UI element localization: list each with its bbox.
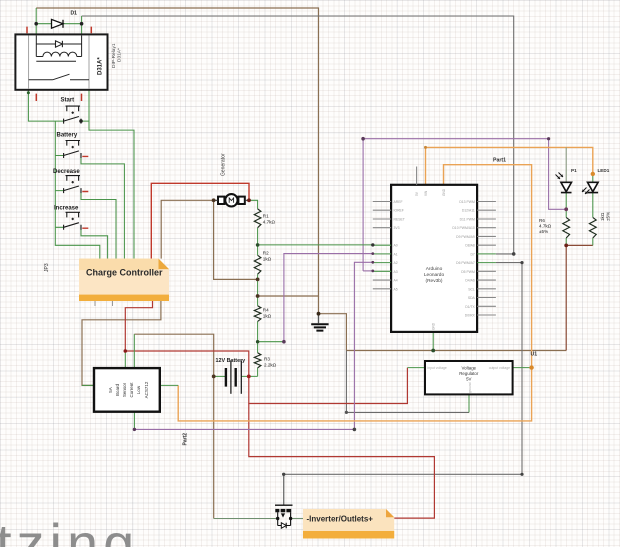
svg-text:D6 PWM/A7: D6 PWM/A7 xyxy=(456,261,475,265)
svg-text:JP3: JP3 xyxy=(44,263,50,272)
svg-text:R6: R6 xyxy=(539,218,545,223)
svg-text:Battery: Battery xyxy=(57,133,78,139)
svg-text:D11 PWM: D11 PWM xyxy=(460,218,475,222)
svg-text:AREF: AREF xyxy=(394,200,403,204)
svg-text:IOREF: IOREF xyxy=(394,209,404,213)
svg-text:ground: ground xyxy=(468,382,472,393)
svg-text:A3: A3 xyxy=(394,270,398,274)
svg-text:ACS712: ACS712 xyxy=(144,381,149,398)
svg-text:(Rev3b): (Rev3b) xyxy=(425,278,442,284)
svg-text:1kΩ: 1kΩ xyxy=(263,256,272,261)
svg-text:-Inverter/Outlets+: -Inverter/Outlets+ xyxy=(307,515,374,524)
svg-text:D13 PWM: D13 PWM xyxy=(459,200,475,204)
svg-text:D4/A6: D4/A6 xyxy=(465,279,475,283)
svg-text:U1: U1 xyxy=(531,352,538,358)
svg-text:A4: A4 xyxy=(394,279,398,283)
svg-text:Part2: Part2 xyxy=(183,433,189,446)
svg-text:5A: 5A xyxy=(108,387,113,393)
svg-text:Voltage: Voltage xyxy=(461,366,476,371)
svg-text:GND: GND xyxy=(432,322,436,330)
svg-text:D1/TX: D1/TX xyxy=(465,305,475,309)
svg-text:D9 PWM/A9: D9 PWM/A9 xyxy=(456,235,475,239)
svg-text:output voltage: output voltage xyxy=(489,366,510,370)
svg-text:R4: R4 xyxy=(263,307,269,312)
svg-text:input voltage: input voltage xyxy=(428,366,447,370)
svg-text:GND: GND xyxy=(442,188,446,196)
svg-text:SDA: SDA xyxy=(468,296,476,300)
svg-text:Part1: Part1 xyxy=(493,158,506,164)
svg-text:4.7kΩ: 4.7kΩ xyxy=(263,220,276,225)
svg-text:DIP-Relay1: DIP-Relay1 xyxy=(111,43,117,68)
svg-text:Current: Current xyxy=(129,382,134,398)
svg-text:D7: D7 xyxy=(470,252,474,256)
svg-text:SCL: SCL xyxy=(468,287,475,291)
svg-text:±5%: ±5% xyxy=(539,229,548,234)
svg-text:Leonardo: Leonardo xyxy=(424,272,445,278)
svg-text:D10 PWM/A10: D10 PWM/A10 xyxy=(452,226,475,230)
svg-text:3V3: 3V3 xyxy=(394,226,400,230)
svg-text:Start: Start xyxy=(61,98,75,104)
svg-text:D1: D1 xyxy=(71,11,78,17)
svg-text:5V: 5V xyxy=(466,377,471,382)
svg-text:Low: Low xyxy=(136,385,141,394)
svg-text:Regulator: Regulator xyxy=(459,371,479,376)
svg-text:RESET: RESET xyxy=(394,218,405,222)
svg-text:R2: R2 xyxy=(263,250,269,255)
svg-text:Decrease: Decrease xyxy=(53,169,80,175)
svg-text:R1: R1 xyxy=(263,214,269,219)
svg-text:D5 PWM: D5 PWM xyxy=(461,270,475,274)
svg-text:1kΩ: 1kΩ xyxy=(263,313,272,318)
svg-text:Sensor: Sensor xyxy=(122,382,127,397)
svg-text:A0: A0 xyxy=(394,244,398,248)
svg-text:LED1: LED1 xyxy=(598,168,610,173)
svg-text:VIN: VIN xyxy=(424,190,428,196)
svg-text:P1: P1 xyxy=(571,168,577,173)
svg-text:A5: A5 xyxy=(394,287,398,291)
svg-text:A1: A1 xyxy=(394,252,398,256)
svg-text:Generator: Generator xyxy=(221,153,227,176)
svg-text:D0/RX: D0/RX xyxy=(465,314,476,318)
svg-text:4.7kΩ: 4.7kΩ xyxy=(539,224,552,229)
svg-text:R3: R3 xyxy=(264,357,270,362)
svg-text:D31A*: D31A* xyxy=(98,57,104,75)
svg-text:1kΩ: 1kΩ xyxy=(600,212,605,221)
svg-text:Board: Board xyxy=(115,384,120,397)
svg-text:D31A*: D31A* xyxy=(117,48,123,62)
svg-text:Charge Controller: Charge Controller xyxy=(86,268,163,278)
svg-text:D12/A11: D12/A11 xyxy=(462,209,475,213)
svg-text:A2: A2 xyxy=(394,261,398,265)
svg-text:Increase: Increase xyxy=(54,206,79,212)
svg-text:2.2kΩ: 2.2kΩ xyxy=(264,363,277,368)
svg-text:Arduino: Arduino xyxy=(426,266,443,272)
svg-text:±5%: ±5% xyxy=(606,212,611,221)
svg-text:D8/A8: D8/A8 xyxy=(465,244,475,248)
